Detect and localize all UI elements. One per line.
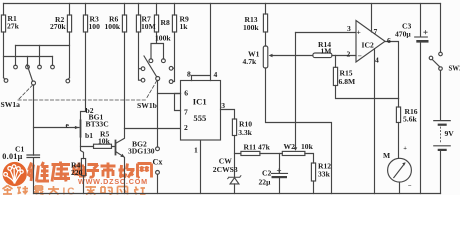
svg-text:3: 3 [347, 24, 351, 33]
svg-text:100k: 100k [155, 34, 171, 43]
svg-text:7: 7 [184, 108, 188, 117]
svg-text:10k: 10k [301, 142, 314, 151]
svg-text:8: 8 [187, 70, 191, 79]
svg-text:1M: 1M [321, 47, 332, 56]
svg-text:9V: 9V [445, 129, 455, 138]
svg-text:R11 47k: R11 47k [244, 143, 271, 152]
svg-text:22μ: 22μ [259, 178, 272, 187]
svg-text:Cx: Cx [153, 158, 164, 167]
svg-text:3DG130: 3DG130 [128, 147, 155, 156]
svg-text:33k: 33k [318, 170, 331, 179]
svg-text:6.8M: 6.8M [339, 77, 356, 86]
svg-text:1: 1 [194, 146, 198, 155]
svg-text:555: 555 [193, 113, 206, 123]
svg-text:WWW.DZSC.COM: WWW.DZSC.COM [78, 177, 148, 186]
svg-text:0.01μ: 0.01μ [2, 152, 22, 161]
svg-text:IC2: IC2 [362, 41, 374, 50]
svg-text:SW2: SW2 [449, 65, 460, 72]
svg-text:100: 100 [89, 22, 101, 31]
svg-text:2: 2 [347, 50, 351, 59]
svg-text:270k: 270k [50, 22, 66, 31]
svg-text:6: 6 [387, 36, 391, 45]
svg-text:470μ: 470μ [395, 30, 411, 39]
svg-text:6: 6 [184, 88, 188, 97]
svg-text:5.6k: 5.6k [403, 115, 417, 124]
svg-text:e: e [66, 121, 70, 130]
svg-text:100k: 100k [243, 23, 259, 32]
svg-text:3.3k: 3.3k [238, 128, 252, 137]
svg-text:C2: C2 [262, 169, 271, 178]
svg-text:SW1a: SW1a [1, 100, 21, 109]
svg-text:2: 2 [184, 123, 188, 132]
svg-text:SW1b: SW1b [137, 101, 157, 110]
svg-text:2CWS3: 2CWS3 [213, 165, 238, 174]
svg-text:100k: 100k [105, 22, 121, 31]
svg-text:−: − [358, 52, 362, 61]
svg-text:IC1: IC1 [193, 96, 207, 106]
svg-text:10k: 10k [98, 137, 111, 146]
svg-text:27k: 27k [7, 22, 20, 31]
svg-text:−: − [408, 183, 412, 190]
svg-text:1k: 1k [180, 22, 189, 31]
svg-text:3: 3 [221, 101, 225, 110]
svg-text:b1: b1 [85, 131, 93, 140]
svg-text:BT33C: BT33C [86, 120, 109, 129]
svg-text:7: 7 [374, 27, 378, 36]
svg-text:M: M [383, 151, 390, 160]
svg-text:+: + [357, 28, 361, 37]
svg-text:4: 4 [214, 70, 218, 79]
svg-text:10M: 10M [141, 22, 156, 31]
svg-text:W2: W2 [284, 142, 296, 151]
svg-text:4: 4 [375, 56, 379, 65]
svg-text:+: + [403, 145, 407, 152]
svg-text:4.7k: 4.7k [243, 57, 257, 66]
svg-text:R8: R8 [161, 18, 170, 27]
svg-text:220: 220 [71, 168, 83, 177]
